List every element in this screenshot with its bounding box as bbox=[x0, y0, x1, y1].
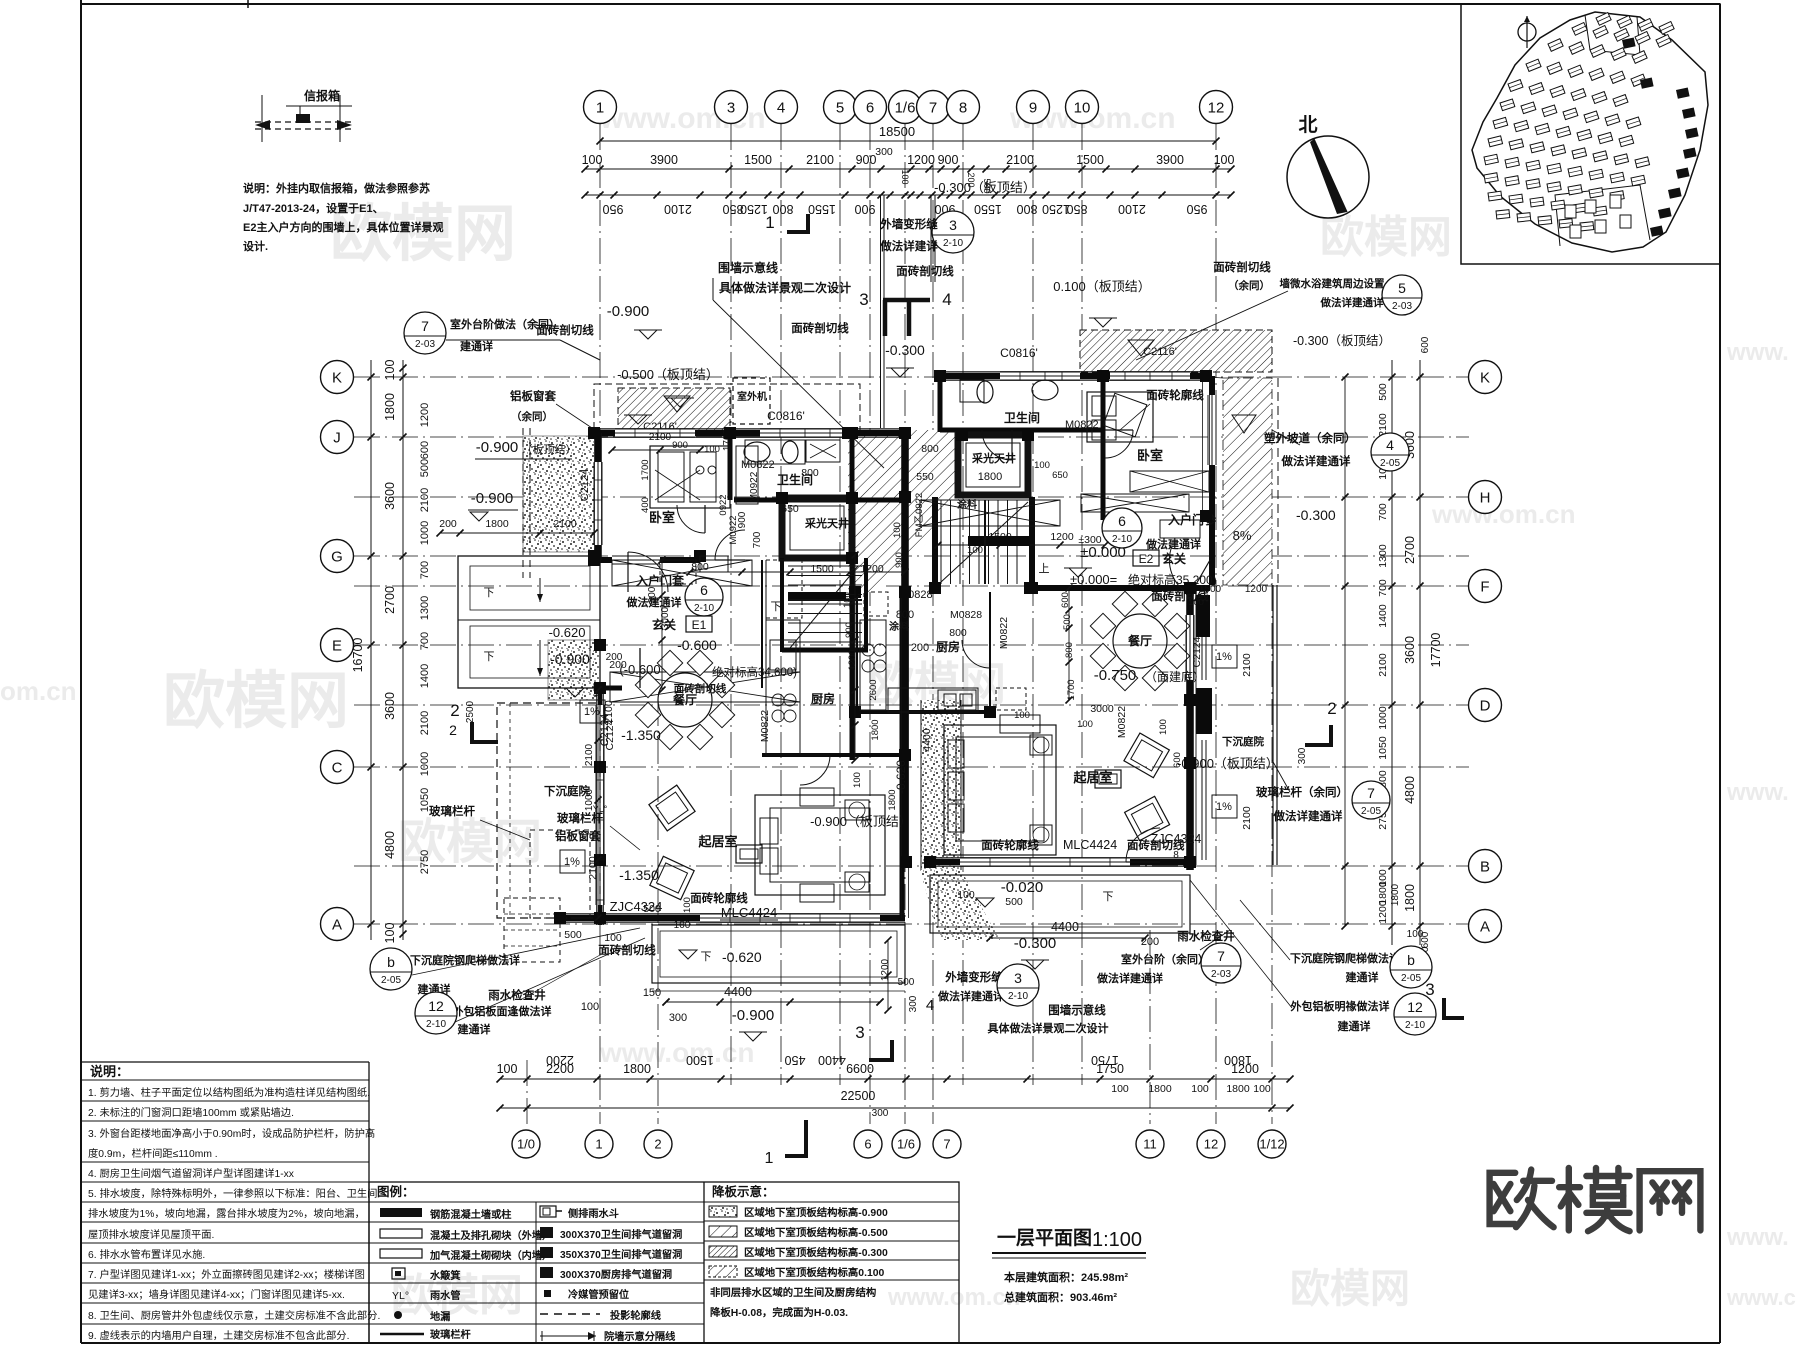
svg-text:下沉庭院: 下沉庭院 bbox=[1222, 735, 1264, 748]
svg-text:900: 900 bbox=[737, 511, 748, 528]
svg-text:排水坡度为1%，坡向地漏，露台排水坡度为2%，坡向地漏，: 排水坡度为1%，坡向地漏，露台排水坡度为2%，坡向地漏， bbox=[88, 1207, 365, 1220]
svg-text:（余同）: （余同） bbox=[1228, 279, 1270, 292]
svg-text:绝对标高34.600): 绝对标高34.600) bbox=[712, 665, 797, 679]
svg-text:800: 800 bbox=[1064, 642, 1075, 658]
callout 7 2-03 with texts bbox=[404, 312, 446, 354]
svg-text:3: 3 bbox=[949, 217, 957, 233]
svg-text:卧室: 卧室 bbox=[649, 510, 675, 525]
svg-text:墙微水浴建筑周边设置: 墙微水浴建筑周边设置 bbox=[1280, 277, 1385, 290]
bottom axis circles bbox=[512, 1130, 540, 1158]
svg-text:外包铝板面逢做法详: 外包铝板面逢做法详 bbox=[452, 1004, 552, 1018]
svg-text:100: 100 bbox=[581, 1001, 599, 1013]
svg-text:2100: 2100 bbox=[419, 488, 431, 512]
svg-text:22500: 22500 bbox=[841, 1089, 876, 1103]
svg-text:12: 12 bbox=[1407, 999, 1423, 1015]
window mullions bbox=[634, 429, 636, 437]
svg-text:0.100（板顶结）: 0.100（板顶结） bbox=[1053, 279, 1151, 294]
svg-text:面砖剖切线: 面砖剖切线 bbox=[791, 321, 849, 335]
right dimension chains bbox=[1391, 360, 1393, 945]
svg-text:信报箱: 信报箱 bbox=[304, 88, 340, 103]
svg-text:做法详建通详: 做法详建通详 bbox=[1320, 296, 1384, 309]
svg-text:7: 7 bbox=[1367, 785, 1375, 801]
svg-text:下: 下 bbox=[484, 587, 495, 599]
svg-text:5: 5 bbox=[836, 99, 844, 116]
svg-text:700: 700 bbox=[752, 531, 763, 548]
svg-text:1400: 1400 bbox=[1377, 604, 1389, 628]
left dimension chains bbox=[370, 360, 372, 940]
svg-text:院墙示意分隔线: 院墙示意分隔线 bbox=[604, 1330, 676, 1343]
svg-text:100: 100 bbox=[674, 920, 691, 931]
svg-text:4: 4 bbox=[942, 290, 951, 309]
svg-text:900: 900 bbox=[855, 202, 876, 216]
svg-text:300: 300 bbox=[647, 586, 658, 603]
svg-text:1800: 1800 bbox=[1390, 883, 1401, 906]
svg-text:1800: 1800 bbox=[1224, 1053, 1252, 1067]
callout 12 2-10 left bbox=[415, 992, 457, 1034]
svg-text:室外台阶（余同）: 室外台阶（余同） bbox=[1121, 952, 1209, 966]
svg-text:总建筑面积：903.46m²: 总建筑面积：903.46m² bbox=[1004, 1290, 1117, 1304]
wall edge lines bbox=[594, 428, 905, 430]
svg-text:2-10: 2-10 bbox=[1008, 991, 1028, 1002]
svg-text:欧模网: 欧模网 bbox=[1290, 1267, 1410, 1311]
svg-text:700: 700 bbox=[419, 561, 431, 579]
callout 12 2-10 right bbox=[1394, 993, 1436, 1035]
svg-text:900: 900 bbox=[938, 153, 959, 167]
svg-text:2: 2 bbox=[449, 722, 457, 738]
svg-text:2-10: 2-10 bbox=[1405, 1020, 1425, 1031]
svg-text:2-10: 2-10 bbox=[694, 603, 714, 614]
svg-text:C2124: C2124 bbox=[579, 469, 591, 501]
svg-text:2100: 2100 bbox=[553, 518, 577, 530]
svg-text:涂料: 涂料 bbox=[957, 498, 977, 511]
svg-text:800: 800 bbox=[1017, 202, 1038, 216]
svg-text:YL°: YL° bbox=[392, 1290, 409, 1302]
svg-text:1500: 1500 bbox=[744, 153, 772, 167]
svg-text:800: 800 bbox=[773, 202, 794, 216]
svg-text:围墙示意线: 围墙示意线 bbox=[718, 260, 778, 275]
svg-text:玻璃栏杆: 玻璃栏杆 bbox=[429, 804, 475, 818]
svg-text:850: 850 bbox=[1067, 202, 1088, 216]
svg-text:7: 7 bbox=[929, 99, 937, 116]
big watermark 欧模网 bbox=[1490, 1170, 1554, 1228]
svg-text:6600: 6600 bbox=[846, 1062, 874, 1076]
svg-text:2100: 2100 bbox=[664, 202, 692, 216]
svg-text:1800: 1800 bbox=[485, 518, 509, 530]
svg-text:C2124: C2124 bbox=[599, 714, 611, 746]
svg-text:800: 800 bbox=[801, 467, 819, 479]
svg-text:300: 300 bbox=[669, 1012, 687, 1024]
svg-text:2200: 2200 bbox=[546, 1053, 574, 1067]
svg-text:300: 300 bbox=[1297, 747, 1308, 764]
svg-text:本层建筑面积：245.98m²: 本层建筑面积：245.98m² bbox=[1004, 1270, 1128, 1284]
svg-text:1000: 1000 bbox=[1377, 706, 1389, 730]
svg-text:一层平面图: 一层平面图 bbox=[997, 1227, 1092, 1249]
svg-text:450: 450 bbox=[785, 1053, 806, 1067]
svg-text:铝板窗套: 铝板窗套 bbox=[510, 389, 556, 403]
stair flight bar right bbox=[968, 536, 1030, 546]
svg-text:雨水检查井: 雨水检查井 bbox=[1177, 929, 1235, 943]
svg-text:500: 500 bbox=[1062, 614, 1073, 630]
svg-text:500: 500 bbox=[564, 929, 582, 941]
svg-text:600: 600 bbox=[419, 441, 431, 459]
svg-text:-0.300（板顶结）: -0.300（板顶结） bbox=[934, 180, 1036, 195]
svg-text:±300: ±300 bbox=[1078, 534, 1101, 546]
svg-text:采光天井: 采光天井 bbox=[971, 451, 1016, 465]
svg-text:1/6: 1/6 bbox=[897, 1137, 915, 1152]
svg-text:室外机: 室外机 bbox=[737, 390, 767, 403]
svg-text:-0.900（板顶结）: -0.900（板顶结） bbox=[810, 814, 912, 829]
elev -0.900 top1 tri bbox=[671, 398, 689, 407]
svg-text:9. 虚线表示的内墙用户自理，土建交房标准不包含此部分.: 9. 虚线表示的内墙用户自理，土建交房标准不包含此部分. bbox=[88, 1329, 349, 1342]
svg-text:1200: 1200 bbox=[1245, 584, 1268, 595]
hatched canopy right top (C2116) bbox=[1080, 330, 1272, 372]
svg-text:1200: 1200 bbox=[419, 403, 431, 427]
callout 6 2-10 left bbox=[685, 578, 723, 616]
svg-text:3900: 3900 bbox=[650, 153, 678, 167]
svg-text:600: 600 bbox=[1172, 752, 1183, 768]
svg-text:具体做法详景观二次设计: 具体做法详景观二次设计 bbox=[719, 280, 851, 295]
svg-text:3600: 3600 bbox=[1403, 636, 1417, 664]
svg-text:3000: 3000 bbox=[1090, 703, 1114, 715]
svg-text:www.: www. bbox=[1726, 339, 1789, 366]
left unit interior furniture bbox=[650, 446, 730, 508]
svg-text:说明：: 说明： bbox=[90, 1064, 129, 1079]
svg-text:2100: 2100 bbox=[1241, 653, 1253, 677]
svg-text:800: 800 bbox=[949, 627, 967, 639]
svg-text:铝板窗套: 铝板窗套 bbox=[555, 829, 601, 843]
svg-text:侧排雨水斗: 侧排雨水斗 bbox=[568, 1207, 619, 1220]
svg-text:500: 500 bbox=[1377, 383, 1389, 401]
svg-text:9: 9 bbox=[1029, 99, 1037, 116]
svg-text:100: 100 bbox=[1191, 1083, 1209, 1095]
svg-text:-0.900: -0.900 bbox=[607, 303, 650, 320]
svg-text:2: 2 bbox=[1327, 699, 1336, 718]
svg-text:800: 800 bbox=[921, 443, 939, 455]
svg-text:om.cn: om.cn bbox=[0, 676, 77, 706]
svg-text:2-10: 2-10 bbox=[943, 238, 963, 249]
svg-text:1000: 1000 bbox=[419, 521, 431, 545]
svg-text:12: 12 bbox=[428, 998, 444, 1014]
svg-text:300: 300 bbox=[908, 995, 919, 1012]
entry label E2 right bbox=[1133, 550, 1159, 566]
svg-text:100: 100 bbox=[1253, 1083, 1271, 1095]
stipple bottom center bbox=[920, 870, 1000, 940]
svg-text:-0.900: -0.900 bbox=[476, 439, 519, 456]
svg-text:2-10: 2-10 bbox=[426, 1019, 446, 1030]
legend table 图例 bbox=[369, 1182, 959, 1343]
svg-text:www.om.cn: www.om.cn bbox=[887, 1284, 1020, 1311]
svg-text:4: 4 bbox=[777, 99, 785, 116]
callout 4 2-05 right bbox=[1371, 433, 1409, 471]
svg-text:2100: 2100 bbox=[1118, 202, 1146, 216]
svg-text:做法详建通详: 做法详建通详 bbox=[1281, 454, 1351, 468]
svg-text:面砖轮廓线: 面砖轮廓线 bbox=[690, 891, 748, 905]
svg-text:650: 650 bbox=[1052, 470, 1068, 481]
svg-text:100: 100 bbox=[582, 153, 603, 167]
svg-text:F: F bbox=[1480, 578, 1489, 595]
svg-text:面砖剖切线: 面砖剖切线 bbox=[674, 682, 727, 695]
svg-text:度0.9m，栏杆间距≤110mm .: 度0.9m，栏杆间距≤110mm . bbox=[88, 1147, 218, 1160]
svg-text:700: 700 bbox=[419, 632, 431, 650]
svg-text:做法详建通详: 做法详建通详 bbox=[937, 989, 1004, 1003]
svg-text:4400: 4400 bbox=[724, 985, 752, 999]
svg-text:FM乙0922: FM乙0922 bbox=[914, 493, 925, 537]
svg-text:1%: 1% bbox=[1216, 801, 1232, 813]
svg-text:8: 8 bbox=[1173, 850, 1179, 861]
svg-text:2600: 2600 bbox=[868, 679, 879, 700]
svg-text:1800: 1800 bbox=[887, 789, 898, 810]
svg-text:MLC4424: MLC4424 bbox=[1063, 838, 1117, 852]
svg-text:1250: 1250 bbox=[1042, 202, 1070, 216]
svg-text:3: 3 bbox=[859, 290, 868, 309]
svg-text:图例：: 图例： bbox=[377, 1184, 415, 1199]
svg-text:外墙变形缝: 外墙变形缝 bbox=[944, 970, 1003, 984]
svg-text:说明：外挂内取信报箱，做法参照参苏: 说明：外挂内取信报箱，做法参照参苏 bbox=[243, 181, 430, 195]
svg-text:2100: 2100 bbox=[419, 711, 431, 735]
callout b 2-05 right bbox=[1390, 946, 1432, 988]
svg-text:卫生间: 卫生间 bbox=[1004, 410, 1040, 425]
svg-text:C2124: C2124 bbox=[1191, 636, 1203, 667]
svg-text:18500: 18500 bbox=[879, 124, 915, 139]
svg-text:1500: 1500 bbox=[810, 563, 834, 575]
svg-text:-1.350: -1.350 bbox=[619, 867, 659, 883]
svg-text:下: 下 bbox=[701, 951, 712, 963]
svg-text:建通详: 建通详 bbox=[1346, 970, 1379, 984]
svg-text:2500: 2500 bbox=[465, 700, 476, 723]
svg-text:11: 11 bbox=[1143, 1137, 1157, 1152]
svg-text:1500: 1500 bbox=[686, 1053, 714, 1067]
svg-text:1700: 1700 bbox=[640, 459, 651, 480]
svg-text:面砖剖切线: 面砖剖切线 bbox=[1213, 260, 1271, 274]
svg-text:300X370卫生间排气道留洞: 300X370卫生间排气道留洞 bbox=[560, 1228, 682, 1241]
landing line right stair bbox=[984, 500, 986, 584]
svg-text:雨水管: 雨水管 bbox=[430, 1289, 461, 1302]
svg-text:-0.020: -0.020 bbox=[1001, 879, 1044, 896]
svg-text:欧模网: 欧模网 bbox=[1320, 213, 1452, 262]
callout 3 2-10 bottom bbox=[997, 964, 1039, 1006]
svg-text:1:100: 1:100 bbox=[1092, 1229, 1142, 1251]
svg-text:1%: 1% bbox=[1216, 651, 1232, 663]
svg-text:100: 100 bbox=[967, 545, 983, 556]
right bottom terrace bbox=[930, 875, 1190, 933]
svg-text:4400: 4400 bbox=[1051, 920, 1079, 934]
svg-text:起居室: 起居室 bbox=[1072, 770, 1112, 785]
svg-text:950: 950 bbox=[1187, 202, 1208, 216]
svg-text:6: 6 bbox=[700, 582, 708, 598]
svg-text:做法建通详: 做法建通详 bbox=[1145, 537, 1201, 551]
svg-text:800: 800 bbox=[896, 609, 914, 621]
svg-text:A: A bbox=[1480, 918, 1490, 935]
svg-text:3: 3 bbox=[1014, 970, 1022, 986]
svg-text:3600: 3600 bbox=[383, 692, 397, 720]
svg-text:2-05: 2-05 bbox=[1380, 458, 1400, 469]
svg-text:2. 未标注的门窗洞口距墙100mm 或紧贴墙边.: 2. 未标注的门窗洞口距墙100mm 或紧贴墙边. bbox=[88, 1106, 294, 1119]
svg-text:1800: 1800 bbox=[1226, 1083, 1250, 1095]
hatched seam wedge center bbox=[848, 430, 958, 592]
svg-text:3: 3 bbox=[855, 1023, 864, 1042]
svg-text:1/0: 1/0 bbox=[517, 1137, 535, 1152]
svg-text:面砖剖切线: 面砖剖切线 bbox=[536, 323, 594, 337]
svg-text:-0.900: -0.900 bbox=[550, 651, 590, 667]
svg-text:5: 5 bbox=[1398, 280, 1406, 296]
svg-text:外墙变形缝: 外墙变形缝 bbox=[879, 217, 938, 231]
svg-text:混凝土及排孔砌块（外墙）: 混凝土及排孔砌块（外墙） bbox=[430, 1229, 552, 1242]
svg-text:A: A bbox=[332, 916, 342, 933]
svg-text:做法详建通详: 做法详建通详 bbox=[1096, 971, 1163, 985]
svg-text:下沉庭院钢爬梯做法详: 下沉庭院钢爬梯做法详 bbox=[1290, 951, 1400, 965]
svg-text:200: 200 bbox=[439, 518, 457, 530]
top axis circles bbox=[584, 91, 617, 124]
svg-text:1: 1 bbox=[595, 1137, 602, 1152]
svg-text:0922: 0922 bbox=[718, 494, 729, 515]
svg-text:上: 上 bbox=[1039, 562, 1050, 575]
stipple band left upper bbox=[523, 436, 595, 552]
svg-text:10: 10 bbox=[1074, 99, 1091, 116]
svg-text:采光天井: 采光天井 bbox=[804, 516, 849, 530]
svg-text:1. 剪力墙、柱子平面定位以结构图纸为准构造柱详见结构图纸.: 1. 剪力墙、柱子平面定位以结构图纸为准构造柱详见结构图纸. bbox=[88, 1086, 370, 1099]
svg-text:www.om.cn: www.om.cn bbox=[1431, 499, 1576, 529]
svg-text:7: 7 bbox=[421, 318, 429, 334]
svg-text:1%: 1% bbox=[564, 856, 580, 868]
svg-text:设计.: 设计. bbox=[243, 239, 268, 253]
svg-text:K: K bbox=[332, 369, 342, 386]
svg-text:下沉庭院钢爬梯做法详: 下沉庭院钢爬梯做法详 bbox=[410, 953, 520, 967]
svg-text:做法详建详: 做法详建详 bbox=[879, 239, 938, 253]
north arrow compass bbox=[1287, 136, 1369, 218]
notes table 说明 bbox=[81, 1061, 369, 1063]
svg-text:6: 6 bbox=[866, 99, 874, 116]
svg-text:8: 8 bbox=[959, 99, 967, 116]
svg-text:100: 100 bbox=[1407, 929, 1424, 940]
svg-text:2: 2 bbox=[450, 701, 459, 720]
svg-text:（面建底）: （面建底） bbox=[1145, 669, 1205, 684]
svg-text:-0.900: -0.900 bbox=[732, 1007, 775, 1024]
svg-text:16700: 16700 bbox=[351, 638, 365, 673]
svg-text:E: E bbox=[332, 637, 342, 654]
svg-text:500: 500 bbox=[419, 459, 431, 477]
svg-text:600: 600 bbox=[1420, 336, 1431, 353]
callout b 2-05 left bbox=[370, 948, 412, 990]
svg-text:C0816': C0816' bbox=[1000, 346, 1038, 360]
svg-text:下: 下 bbox=[1103, 891, 1114, 903]
svg-text:MLC4424: MLC4424 bbox=[721, 905, 777, 920]
hatched ramp right zone bbox=[1223, 378, 1272, 585]
entry door leaves bbox=[639, 648, 641, 688]
svg-text:1800: 1800 bbox=[870, 719, 881, 740]
svg-text:下: 下 bbox=[484, 651, 495, 663]
svg-text:350X370卫生间排气道留洞: 350X370卫生间排气道留洞 bbox=[560, 1248, 682, 1261]
svg-text:建通详: 建通详 bbox=[460, 339, 493, 353]
hatched canopy left (C2116) bbox=[618, 388, 730, 432]
svg-text:7. 户型详图见建详1-xx；外立面擦砖图见建详2-xx；楼: 7. 户型详图见建详1-xx；外立面擦砖图见建详2-xx；楼梯详图 bbox=[88, 1268, 365, 1281]
svg-text:1200: 1200 bbox=[1050, 531, 1074, 543]
svg-text:100: 100 bbox=[1158, 719, 1169, 735]
svg-text:起居室: 起居室 bbox=[697, 834, 737, 849]
svg-text:-0.300（板顶结）: -0.300（板顶结） bbox=[1293, 334, 1391, 348]
svg-text:建通详: 建通详 bbox=[458, 1022, 491, 1036]
svg-text:4800: 4800 bbox=[383, 831, 397, 859]
svg-text:B: B bbox=[1480, 858, 1490, 875]
grid vertical lines bbox=[599, 124, 601, 1124]
bottom dimension chains bbox=[500, 1078, 1290, 1080]
svg-text:涂料: 涂料 bbox=[889, 620, 909, 633]
interior dimension strings bbox=[661, 560, 663, 690]
svg-text:www.c: www.c bbox=[1726, 1285, 1796, 1310]
svg-text:3900: 3900 bbox=[1156, 153, 1184, 167]
svg-text:±0.000=: ±0.000= bbox=[1070, 572, 1117, 587]
svg-text:E2: E2 bbox=[1139, 552, 1154, 566]
svg-text:900: 900 bbox=[844, 622, 855, 638]
svg-text:1750: 1750 bbox=[1091, 1053, 1119, 1067]
svg-text:1800: 1800 bbox=[978, 471, 1002, 483]
svg-text:650: 650 bbox=[781, 503, 799, 515]
callout 7 2-03 bottom bbox=[1201, 943, 1241, 983]
svg-text:1: 1 bbox=[596, 99, 604, 116]
stipple seam center bbox=[921, 700, 961, 870]
svg-text:6. 排水水管布置详见水施.: 6. 排水水管布置详见水施. bbox=[88, 1248, 205, 1261]
svg-text:2100: 2100 bbox=[1241, 806, 1253, 830]
svg-text:2-05: 2-05 bbox=[1361, 806, 1381, 817]
svg-text:玻璃栏杆（余同）: 玻璃栏杆（余同） bbox=[1256, 785, 1348, 799]
svg-text:下: 下 bbox=[771, 601, 782, 613]
svg-text:400: 400 bbox=[640, 497, 651, 513]
svg-text:E2主入户方向的围墙上，具体位置详景观: E2主入户方向的围墙上，具体位置详景观 bbox=[243, 220, 443, 234]
svg-text:100: 100 bbox=[1111, 1083, 1129, 1095]
svg-text:M0822: M0822 bbox=[1065, 419, 1099, 431]
svg-text:1300: 1300 bbox=[1377, 544, 1389, 568]
svg-text:150: 150 bbox=[643, 987, 661, 999]
svg-text:1250: 1250 bbox=[740, 202, 768, 216]
svg-text:950: 950 bbox=[603, 202, 624, 216]
svg-text:2100: 2100 bbox=[806, 153, 834, 167]
svg-text:200: 200 bbox=[911, 642, 929, 654]
right courtyard rails bbox=[1272, 585, 1274, 865]
page frame border bbox=[80, 0, 82, 1343]
svg-text:-1.350: -1.350 bbox=[621, 727, 661, 743]
svg-text:1800: 1800 bbox=[1403, 884, 1417, 912]
svg-text:100: 100 bbox=[1034, 460, 1050, 471]
svg-text:100: 100 bbox=[1014, 710, 1030, 721]
right unit interior furniture bbox=[1087, 392, 1153, 442]
svg-text:水簸箕: 水簸箕 bbox=[429, 1269, 461, 1282]
svg-text:500: 500 bbox=[898, 977, 915, 988]
svg-text:4. 厨房卫生间烟气道留洞详户型详图建详1-xx: 4. 厨房卫生间烟气道留洞详户型详图建详1-xx bbox=[88, 1167, 295, 1180]
entry label E1 left bbox=[686, 616, 712, 632]
svg-text:3600: 3600 bbox=[383, 482, 397, 510]
svg-text:M0822: M0822 bbox=[1116, 706, 1128, 738]
left axis row lines bbox=[354, 376, 1469, 378]
svg-text:见建详3-xx；墙身详图见建详4-xx；门窗详图见建详5-x: 见建详3-xx；墙身详图见建详4-xx；门窗详图见建详5-xx. bbox=[88, 1288, 345, 1301]
svg-text:100: 100 bbox=[383, 360, 397, 381]
svg-text:厨房: 厨房 bbox=[811, 691, 835, 706]
svg-text:-0.620: -0.620 bbox=[894, 760, 908, 794]
callout 7 2-05 right bbox=[1352, 781, 1390, 819]
svg-text:6: 6 bbox=[864, 1137, 871, 1152]
svg-text:550: 550 bbox=[916, 471, 934, 483]
structural columns bbox=[588, 427, 600, 439]
svg-text:2700: 2700 bbox=[383, 586, 397, 614]
svg-text:1800: 1800 bbox=[623, 1062, 651, 1076]
svg-text:C: C bbox=[332, 759, 343, 776]
svg-text:H: H bbox=[1480, 489, 1491, 506]
svg-text:1200: 1200 bbox=[847, 649, 858, 670]
outdoor unit dashed box 室外机 left bbox=[733, 378, 770, 424]
svg-text:7: 7 bbox=[943, 1137, 950, 1152]
landing line left stair bbox=[788, 599, 862, 601]
svg-text:100: 100 bbox=[1214, 153, 1235, 167]
svg-text:6: 6 bbox=[1118, 513, 1126, 529]
svg-text:J/T47-2013-24，设置于E1、: J/T47-2013-24，设置于E1、 bbox=[243, 201, 384, 215]
